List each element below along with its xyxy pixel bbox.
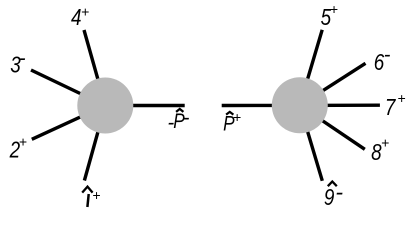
label 1 (drawn as bar)	[87, 194, 88, 207]
svg-text:+: +	[381, 135, 389, 151]
blob right (gray amplitude circle)	[272, 77, 328, 133]
svg-text:+: +	[397, 90, 405, 106]
wire leg 5 (right blob top leg)	[300, 30, 322, 106]
hat over 1	[82, 187, 92, 193]
svg-text:-: -	[19, 48, 26, 70]
wire leg 1 (left blob bottom leg)	[84, 106, 105, 181]
svg-text:9: 9	[324, 185, 335, 210]
svg-text:4: 4	[71, 5, 81, 30]
wire leg 7 (right blob right horizontal leg)	[300, 103, 380, 107]
svg-text:-: -	[335, 179, 343, 205]
hat over P left	[176, 109, 183, 112]
svg-text:7: 7	[385, 95, 397, 120]
wire leg P (right blob left horizontal leg)	[222, 104, 300, 107]
wire leg 6 (right blob upper-right leg)	[300, 63, 366, 105]
svg-text:-: -	[183, 107, 190, 129]
hat over 9	[328, 182, 337, 187]
svg-text:+: +	[19, 133, 27, 149]
wire leg 4 (left blob upper leg)	[84, 30, 105, 106]
wire leg 2 (left blob lower-left leg)	[32, 106, 106, 140]
svg-text:-: -	[384, 44, 391, 66]
svg-text:+: +	[92, 187, 100, 203]
svg-text:+: +	[81, 4, 89, 20]
wire leg 3 (left blob upper-left leg)	[31, 70, 105, 106]
hat over P right	[226, 112, 233, 115]
wire leg -P (left blob right horizontal leg)	[105, 104, 184, 107]
wire leg 8 (right blob lower-right leg)	[300, 105, 365, 149]
blob left (gray amplitude circle)	[77, 78, 133, 134]
wire leg 9 (right blob bottom leg)	[300, 105, 323, 180]
svg-text:+: +	[233, 109, 241, 125]
svg-text:+: +	[330, 1, 338, 17]
